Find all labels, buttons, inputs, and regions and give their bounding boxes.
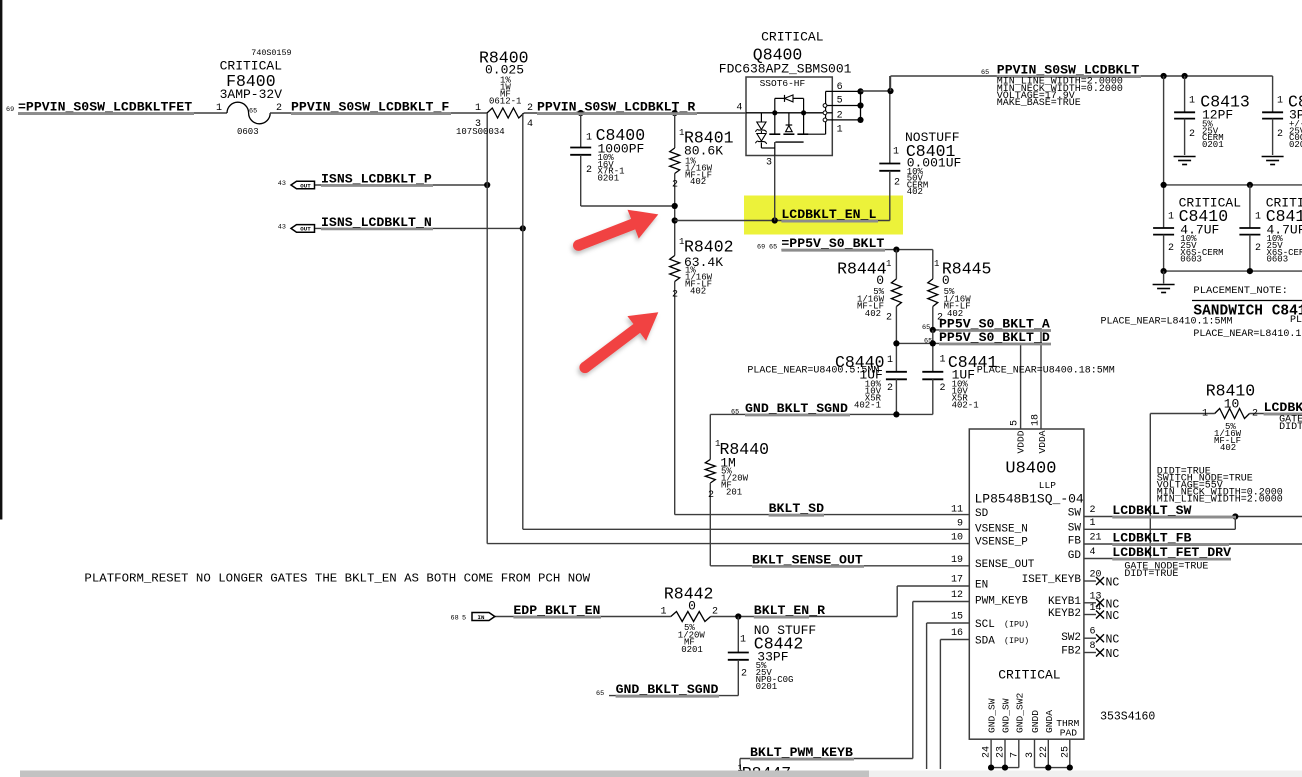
svg-text:0: 0	[688, 599, 696, 614]
svg-text:LCDBKLT_FET_DRV: LCDBKLT_FET_DRV	[1112, 545, 1231, 560]
svg-text:22: 22	[1039, 746, 1050, 758]
svg-text:1: 1	[475, 103, 481, 114]
svg-text:EDP_BKLT_EN: EDP_BKLT_EN	[513, 603, 600, 618]
svg-text:DIDT: DIDT	[1279, 422, 1302, 433]
svg-text:2: 2	[741, 669, 747, 680]
svg-text:CRITICAL: CRITICAL	[761, 30, 823, 45]
svg-text:PLACEMENT_NOTE:: PLACEMENT_NOTE:	[1193, 285, 1288, 297]
svg-text:1: 1	[1168, 212, 1174, 223]
svg-text:GND_BKLT_SGND: GND_BKLT_SGND	[616, 682, 719, 697]
svg-text:1: 1	[216, 103, 222, 114]
svg-text:3: 3	[766, 158, 772, 169]
svg-text:PLATFORM_RESET NO LONGER GATES: PLATFORM_RESET NO LONGER GATES THE BKLT_…	[84, 572, 590, 586]
svg-text:65: 65	[596, 690, 604, 698]
svg-text:LCDBKLT_FET: LCDBKLT_FET	[1264, 400, 1302, 415]
svg-text:0: 0	[876, 273, 884, 288]
svg-text:43: 43	[278, 180, 286, 188]
svg-text:=PP5V_S0_BKLT: =PP5V_S0_BKLT	[781, 236, 884, 251]
svg-text:PPVIN_S0SW_LCDBKLT: PPVIN_S0SW_LCDBKLT	[997, 63, 1140, 78]
svg-text:IN: IN	[478, 614, 485, 621]
svg-text:0: 0	[942, 273, 950, 288]
svg-text:402: 402	[865, 309, 881, 319]
svg-text:(IPU): (IPU)	[1004, 620, 1029, 630]
svg-text:GNDD: GNDD	[1030, 710, 1041, 733]
svg-text:R8402: R8402	[684, 238, 734, 257]
svg-text:2: 2	[937, 313, 943, 324]
svg-text:1: 1	[1090, 518, 1096, 529]
svg-text:65: 65	[922, 324, 930, 332]
svg-text:SSOT6-HF: SSOT6-HF	[760, 78, 806, 89]
svg-text:0603: 0603	[1267, 255, 1289, 265]
svg-text:10: 10	[951, 533, 963, 544]
svg-text:PL: PL	[1290, 315, 1302, 326]
svg-text:2: 2	[1168, 243, 1174, 254]
svg-text:PLACE_NEAR=U8400.18:5MM: PLACE_NEAR=U8400.18:5MM	[977, 366, 1115, 377]
svg-text:201: 201	[726, 488, 742, 498]
svg-text:25: 25	[1060, 746, 1071, 758]
svg-text:2: 2	[886, 313, 892, 324]
svg-text:11: 11	[951, 505, 963, 516]
svg-text:402-1: 402-1	[952, 401, 979, 411]
svg-text:2: 2	[1277, 129, 1283, 140]
svg-text:69: 69	[6, 106, 14, 114]
svg-text:24: 24	[982, 746, 993, 758]
svg-text:SDA: SDA	[975, 636, 995, 648]
svg-text:353S4160: 353S4160	[1100, 711, 1155, 724]
svg-text:65: 65	[731, 409, 739, 417]
svg-text:SENSE_OUT: SENSE_OUT	[975, 559, 1035, 571]
svg-text:65: 65	[249, 108, 257, 116]
svg-text:VDDD: VDDD	[1015, 430, 1026, 453]
svg-text:68: 68	[451, 615, 459, 623]
svg-text:9: 9	[957, 519, 963, 530]
svg-text:2: 2	[672, 290, 678, 301]
svg-text:ISNS_LCDBKLT_N: ISNS_LCDBKLT_N	[321, 215, 432, 230]
svg-text:2: 2	[527, 103, 533, 114]
svg-text:SW: SW	[1068, 508, 1082, 520]
svg-text:1: 1	[1255, 212, 1261, 223]
svg-text:0603: 0603	[237, 127, 259, 137]
svg-text:PPVIN_S0SW_LCDBKLT_F: PPVIN_S0SW_LCDBKLT_F	[291, 100, 449, 115]
svg-text:LLP: LLP	[1039, 480, 1056, 491]
svg-text:FB2: FB2	[1061, 646, 1081, 658]
svg-text:0201: 0201	[598, 173, 620, 183]
svg-text:KEYB1: KEYB1	[1048, 596, 1081, 608]
svg-text:BKLT_SENSE_OUT: BKLT_SENSE_OUT	[752, 552, 863, 567]
svg-text:VSENSE_P: VSENSE_P	[975, 537, 1028, 549]
svg-text:DIDT=TRUE: DIDT=TRUE	[1124, 569, 1178, 580]
svg-text:PLACE_NEAR=U8400.5:5MM: PLACE_NEAR=U8400.5:5MM	[747, 366, 879, 377]
svg-text:740S0159: 740S0159	[251, 48, 291, 58]
svg-text:(IPU): (IPU)	[1004, 636, 1029, 646]
svg-text:VDDA: VDDA	[1037, 430, 1048, 453]
svg-text:0201: 0201	[681, 645, 703, 655]
svg-text:NC: NC	[1106, 610, 1120, 623]
svg-text:2: 2	[586, 165, 592, 176]
svg-text:1: 1	[660, 607, 666, 618]
svg-text:FDC638APZ_SBMS001: FDC638APZ_SBMS001	[719, 62, 852, 77]
svg-text:MAKE_BASE=TRUE: MAKE_BASE=TRUE	[997, 98, 1081, 109]
svg-text:1: 1	[934, 259, 939, 269]
svg-text:3AMP-32V: 3AMP-32V	[220, 87, 283, 102]
svg-text:1: 1	[940, 355, 946, 366]
svg-text:FB: FB	[1068, 536, 1082, 548]
svg-text:OUT: OUT	[300, 226, 311, 233]
svg-text:SW: SW	[1068, 522, 1082, 534]
svg-text:402: 402	[907, 187, 923, 197]
svg-text:12: 12	[951, 590, 963, 601]
svg-text:MIN_LINE_WIDTH=2.0000: MIN_LINE_WIDTH=2.0000	[1157, 495, 1283, 506]
svg-text:16: 16	[951, 628, 963, 639]
svg-text:1: 1	[1277, 96, 1283, 107]
svg-text:ISET_KEYB: ISET_KEYB	[1022, 574, 1082, 586]
svg-text:KEYB2: KEYB2	[1048, 608, 1081, 620]
svg-text:CRITICAL: CRITICAL	[998, 668, 1060, 683]
svg-text:2: 2	[940, 383, 946, 394]
svg-text:GND_SW2: GND_SW2	[1014, 692, 1025, 733]
svg-text:2: 2	[837, 111, 843, 122]
svg-text:23: 23	[996, 746, 1007, 758]
svg-text:PLACE_NEAR=L8410.1:5MM: PLACE_NEAR=L8410.1:5MM	[1101, 317, 1233, 328]
svg-text:65: 65	[981, 69, 989, 77]
svg-text:ISNS_LCDBKLT_P: ISNS_LCDBKLT_P	[321, 172, 432, 187]
svg-text:69: 69	[757, 244, 765, 252]
svg-text:LCDBKLT_EN_L: LCDBKLT_EN_L	[781, 207, 876, 222]
svg-text:2: 2	[712, 607, 718, 618]
svg-text:BKLT_EN_R: BKLT_EN_R	[754, 603, 825, 618]
svg-text:10: 10	[1224, 397, 1240, 412]
svg-text:GNDA: GNDA	[1044, 710, 1055, 733]
svg-text:1: 1	[837, 125, 843, 136]
svg-text:4: 4	[736, 103, 742, 114]
svg-text:15: 15	[951, 612, 963, 623]
svg-text:1: 1	[893, 147, 899, 158]
svg-text:2: 2	[1252, 409, 1258, 420]
svg-text:PPVIN_S0SW_LCDBKLT_R: PPVIN_S0SW_LCDBKLT_R	[537, 100, 695, 115]
svg-text:14: 14	[1090, 603, 1102, 614]
svg-text:3: 3	[1025, 752, 1036, 758]
svg-text:GND_SW: GND_SW	[987, 698, 998, 733]
svg-text:0612-1: 0612-1	[489, 97, 521, 107]
svg-text:0603: 0603	[1180, 255, 1202, 265]
svg-text:1: 1	[887, 355, 893, 366]
svg-text:1: 1	[740, 635, 746, 646]
svg-text:SD: SD	[975, 508, 989, 520]
svg-text:NC: NC	[1106, 577, 1120, 590]
svg-text:SCL: SCL	[975, 619, 995, 631]
svg-text:GND_BKLT_SGND: GND_BKLT_SGND	[745, 401, 848, 416]
svg-text:2: 2	[1255, 243, 1261, 254]
svg-text:1: 1	[886, 259, 891, 269]
svg-text:2: 2	[894, 178, 900, 189]
svg-text:6: 6	[1090, 627, 1096, 638]
svg-text:402: 402	[690, 287, 706, 297]
svg-text:43: 43	[278, 224, 286, 232]
svg-text:PWM_KEYB: PWM_KEYB	[975, 596, 1028, 608]
svg-text:402: 402	[1220, 443, 1236, 453]
svg-text:NC: NC	[1106, 648, 1120, 661]
svg-text:VSENSE_N: VSENSE_N	[975, 524, 1028, 536]
svg-text:2: 2	[672, 180, 678, 191]
svg-text:402: 402	[690, 177, 706, 187]
svg-text:2: 2	[708, 490, 714, 501]
svg-text:2: 2	[1189, 129, 1195, 140]
svg-text:EN: EN	[975, 580, 988, 592]
svg-text:13: 13	[1090, 591, 1102, 602]
svg-text:5: 5	[837, 96, 843, 107]
svg-text:7: 7	[1009, 752, 1020, 758]
svg-text:17: 17	[951, 575, 963, 586]
svg-text:107S00034: 107S00034	[456, 127, 505, 137]
svg-text:OUT: OUT	[300, 182, 311, 189]
svg-text:BKLT_SD: BKLT_SD	[769, 501, 824, 516]
svg-text:2: 2	[887, 383, 893, 394]
svg-text:5: 5	[462, 615, 466, 623]
svg-text:65: 65	[769, 244, 777, 252]
svg-text:0201: 0201	[1289, 140, 1302, 150]
svg-text:5: 5	[1010, 420, 1021, 426]
svg-text:U8400: U8400	[1005, 460, 1056, 479]
svg-text:65: 65	[924, 338, 932, 346]
svg-text:0201: 0201	[1202, 140, 1224, 150]
svg-text:20: 20	[1090, 570, 1102, 581]
svg-text:PP5V_S0_BKLT_D: PP5V_S0_BKLT_D	[939, 330, 1050, 345]
svg-text:GD: GD	[1068, 550, 1082, 562]
svg-text:19: 19	[951, 555, 963, 566]
svg-text:6: 6	[837, 82, 843, 93]
svg-text:4: 4	[1090, 547, 1096, 558]
svg-text:1: 1	[586, 133, 592, 144]
svg-text:8: 8	[1090, 641, 1096, 652]
svg-text:402-1: 402-1	[854, 401, 881, 411]
svg-text:0201: 0201	[756, 682, 778, 692]
svg-text:GND_SW: GND_SW	[1001, 698, 1012, 733]
svg-text:LCDBKLT_FB: LCDBKLT_FB	[1112, 531, 1191, 546]
svg-text:NC: NC	[1106, 634, 1120, 647]
svg-text:PLACE_NEAR=L8410.1:5MM: PLACE_NEAR=L8410.1:5MM	[1193, 329, 1302, 340]
svg-text:402: 402	[947, 309, 963, 319]
svg-text:18: 18	[1031, 414, 1042, 426]
svg-text:LP8548B1SQ_-04: LP8548B1SQ_-04	[975, 492, 1084, 507]
svg-text:2: 2	[1090, 505, 1096, 516]
svg-text:1: 1	[1202, 409, 1208, 420]
svg-text:PAD: PAD	[1060, 728, 1078, 739]
svg-text:21: 21	[1090, 533, 1102, 544]
svg-text:SW2: SW2	[1061, 632, 1081, 644]
svg-text:=PPVIN_S0SW_LCDBKLTFET: =PPVIN_S0SW_LCDBKLTFET	[18, 100, 192, 115]
svg-text:BKLT_PWM_KEYB: BKLT_PWM_KEYB	[750, 745, 853, 760]
svg-text:2: 2	[276, 103, 282, 114]
svg-text:4: 4	[527, 119, 533, 130]
svg-text:1: 1	[1189, 96, 1195, 107]
